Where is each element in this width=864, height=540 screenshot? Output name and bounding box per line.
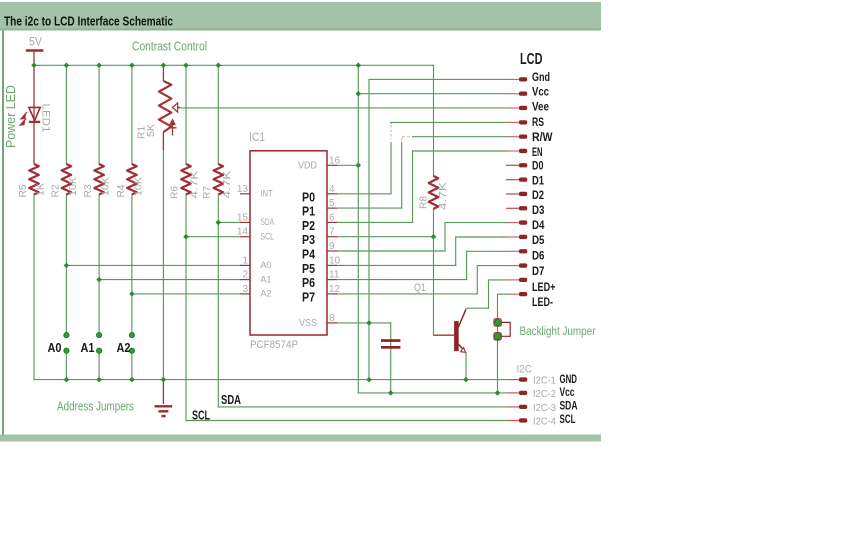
svg-text:Gnd: Gnd: [532, 71, 550, 84]
pin 6 P2 stub: [327, 221, 337, 223]
junction dot ground bus A0 column: [64, 377, 70, 383]
wire SCL pin14 to R6 column: [186, 236, 240, 238]
pin 9 P4 stub: [327, 250, 337, 252]
wire D5 riser: [455, 237, 457, 265]
wire LCD LED+ row: [489, 279, 508, 281]
svg-text:LED-: LED-: [532, 296, 553, 309]
svg-text:D2: D2: [532, 189, 544, 202]
svg-text:A1: A1: [81, 340, 95, 355]
LED D1 LED1: [20, 65, 40, 164]
I2C connector pin I2C-1 GND: [507, 377, 527, 381]
svg-text:I2C-3: I2C-3: [533, 402, 556, 414]
svg-text:I2C-2: I2C-2: [533, 388, 556, 400]
wire A1 pin2 to jumper column: [99, 279, 240, 281]
5V supply symbol: [26, 51, 44, 65]
wire P2 pin6 to EN riser: [337, 221, 413, 223]
wire R3 column top: [98, 65, 100, 164]
wire R5 LED column bottom to ground bus corner: [33, 195, 35, 380]
svg-text:SDA: SDA: [560, 400, 578, 413]
jumper A1 JP2: [97, 333, 102, 354]
svg-text:D4: D4: [532, 219, 545, 232]
wire R7 column top: [217, 65, 219, 164]
svg-text:P7: P7: [302, 291, 315, 305]
svg-text:P4: P4: [302, 248, 315, 262]
wire LCD Vcc row: [358, 93, 507, 95]
pin 14 SCL stub: [240, 236, 250, 238]
LCD connector pin D3: [506, 206, 527, 210]
wire EN riser: [412, 151, 414, 222]
wire LCD Gnd row: [369, 78, 507, 80]
wire P7 pin12 to D7 riser: [337, 293, 477, 295]
LCD connector pin LED+: [507, 278, 527, 282]
bottom green bar: [0, 435, 601, 442]
svg-text:P3: P3: [302, 233, 315, 247]
wire LCD LED- row to backlight jumper column: [498, 293, 508, 295]
svg-text:10K: 10K: [67, 177, 79, 196]
wire LCD R/W row: [402, 136, 507, 138]
wire LCD D6 row: [467, 250, 507, 252]
wire R4 column bottom to A2 and jumper: [131, 195, 133, 332]
wire R2 column top: [65, 65, 67, 164]
title bar: [0, 2, 601, 31]
wire LCD D7 row: [477, 265, 507, 267]
junction dot VCC column top bus: [356, 63, 362, 69]
svg-text:8: 8: [329, 313, 335, 324]
wire P0 pin4 to RS riser: [337, 193, 391, 195]
resistor R3 10K: [94, 164, 104, 195]
potentiometer R1 5K: [159, 65, 180, 150]
wire A0 pin1 to jumper column: [66, 264, 240, 266]
LCD connector pin Gnd: [507, 77, 527, 81]
wire P1 pin5 to RW riser: [337, 207, 402, 209]
backlight jumper JP4: [494, 319, 510, 340]
pin 16 VDD stub: [327, 164, 337, 166]
I2C connector pin I2C-3 SDA: [507, 405, 527, 409]
wire SCL bottom horizontal to I2C-4: [186, 420, 519, 422]
svg-text:LED1: LED1: [40, 104, 52, 133]
svg-text:A0: A0: [48, 340, 62, 355]
junction dot VCC column LCD Vcc row: [356, 91, 362, 97]
svg-text:P6: P6: [302, 276, 315, 290]
svg-text:R5: R5: [17, 184, 29, 197]
pin 4 P0 stub: [327, 193, 337, 195]
junction dot 5V top bus: [31, 63, 37, 69]
LCD connector pin D2: [506, 192, 527, 196]
svg-text:5K: 5K: [145, 124, 157, 137]
svg-text:4.7K: 4.7K: [189, 171, 201, 199]
svg-text:I2C: I2C: [517, 364, 533, 376]
wire LCD D5 row: [456, 236, 507, 238]
svg-text:SCL: SCL: [192, 408, 210, 423]
LCD connector pin D5: [507, 235, 527, 239]
svg-text:Vcc: Vcc: [532, 86, 549, 99]
svg-text:1: 1: [242, 255, 248, 266]
wire LCD D4 row: [445, 222, 507, 224]
wire RW riser: [401, 137, 403, 208]
wire pot column down to ground bus: [162, 142, 164, 380]
junction dot R1 top bus: [161, 63, 167, 69]
LCD connector pin D6: [507, 249, 527, 253]
wire A2 pin3 to jumper column: [132, 293, 240, 295]
wire GND column x369 from LCD Gnd row to ground bus: [368, 79, 370, 379]
svg-text:A1: A1: [261, 274, 272, 285]
LCD connector pin R/W: [507, 135, 527, 139]
svg-text:16: 16: [329, 155, 341, 166]
svg-text:Q1: Q1: [414, 282, 426, 294]
svg-text:14: 14: [237, 227, 249, 238]
wire LCD RS row: [391, 121, 507, 123]
wire R4 column top: [131, 65, 133, 164]
LCD connector pin RS: [507, 120, 527, 124]
junction dot ground bus pot column ground symbol: [161, 377, 167, 383]
wire VCC top bus: [34, 64, 434, 66]
wire R6 column bottom to SCL pin and bottom SCL line: [185, 195, 187, 421]
resistor R4 10K: [127, 164, 137, 195]
svg-text:SCL: SCL: [261, 232, 275, 243]
junction dot R4 top bus: [129, 63, 135, 69]
svg-text:15: 15: [237, 212, 249, 223]
wire ground bus horizontal: [34, 379, 519, 381]
svg-text:Backlight Jumper: Backlight Jumper: [520, 326, 596, 338]
LCD connector pin D7: [507, 263, 527, 267]
pin 10 P5 stub: [327, 264, 337, 266]
junction dot R2 top bus: [64, 63, 70, 69]
svg-text:7: 7: [329, 227, 335, 238]
resistor R8 4.7K: [429, 176, 439, 209]
wire SDA pin15 to R7 column: [218, 221, 240, 223]
svg-text:R8: R8: [418, 196, 430, 209]
svg-text:R/W: R/W: [532, 131, 553, 144]
svg-text:P2: P2: [302, 219, 315, 233]
wire D4 riser: [444, 223, 446, 251]
junction dot ground bus A2 column: [129, 377, 135, 383]
pin 13 INT stub: [240, 193, 250, 195]
svg-text:SCL: SCL: [560, 413, 576, 426]
wire D6 riser: [466, 251, 468, 279]
svg-text:P5: P5: [302, 262, 315, 276]
svg-text:A0: A0: [261, 260, 272, 271]
pin 1 A0 stub: [240, 264, 250, 266]
wire RS riser: [390, 122, 392, 193]
svg-text:I2C-4: I2C-4: [533, 416, 556, 428]
wire between backlight jumper pins: [497, 326, 499, 334]
junction dot SDA R7 column: [216, 220, 222, 226]
svg-text:R2: R2: [49, 184, 61, 197]
pin 7 P3 stub: [327, 236, 337, 238]
LCD connector pin D4: [507, 220, 527, 224]
junction dot ground bus GND column: [366, 377, 372, 383]
svg-text:10K: 10K: [100, 177, 112, 196]
svg-text:13: 13: [237, 184, 249, 195]
svg-text:D3: D3: [532, 204, 545, 217]
svg-text:12: 12: [329, 284, 341, 295]
pin 2 A1 stub: [240, 279, 250, 281]
svg-text:SDA: SDA: [261, 217, 275, 228]
wire LCD Vee row from potentiometer wiper: [180, 107, 507, 109]
svg-text:R4: R4: [115, 184, 127, 197]
wire Q1 collector jog: [466, 307, 489, 309]
svg-text:5V: 5V: [29, 37, 42, 49]
LCD connector pin LED-: [507, 292, 527, 296]
resistor R5 1K: [29, 164, 39, 195]
junction dot ground bus Q1 emitter: [463, 377, 469, 383]
svg-text:11: 11: [329, 270, 340, 281]
svg-text:R7: R7: [201, 186, 213, 199]
wire LCD EN row: [413, 150, 508, 152]
svg-text:D5: D5: [532, 234, 545, 247]
svg-text:VDD: VDD: [298, 160, 317, 172]
I2C connector pin I2C-2 Vcc: [507, 391, 527, 395]
svg-text:R6: R6: [169, 186, 181, 199]
ground symbol: [155, 380, 173, 417]
pin 8 VSS stub: [327, 322, 337, 324]
wire R6 column top: [185, 65, 187, 164]
svg-text:LED+: LED+: [532, 281, 556, 294]
svg-text:RS: RS: [532, 116, 544, 129]
junction dot I2C Vcc row backlight jumper: [495, 390, 501, 396]
junction dot VCC column VDD pin: [356, 163, 362, 169]
svg-text:4.7K: 4.7K: [221, 171, 233, 199]
wire VDD pin16 to VCC column: [337, 164, 358, 166]
junction dot VSS GND column: [366, 320, 372, 326]
wire P5 pin10 to D5 riser: [337, 264, 456, 266]
svg-text:6: 6: [329, 212, 335, 223]
junction dot ground bus A1 column: [96, 377, 102, 383]
wire capacitor lead through plates: [390, 323, 392, 393]
svg-text:5: 5: [329, 198, 335, 209]
jumper A0 JP1: [64, 333, 69, 354]
svg-text:Contrast Control: Contrast Control: [132, 39, 207, 54]
svg-text:SDA: SDA: [221, 392, 241, 407]
wire R3 column bottom to A1 and jumper: [98, 195, 100, 332]
LCD connector pin Vcc: [507, 92, 527, 96]
svg-text:D7: D7: [532, 265, 544, 278]
svg-text:10: 10: [329, 255, 341, 266]
wire R7 column bottom to SDA pin and bottom SDA line: [217, 195, 219, 407]
svg-text:3: 3: [242, 284, 248, 295]
svg-text:Address Jumpers: Address Jumpers: [57, 399, 134, 414]
svg-text:The i2c to LCD Interface Schem: The i2c to LCD Interface Schematic: [4, 15, 173, 29]
svg-text:LCD: LCD: [520, 51, 543, 68]
svg-text:1K: 1K: [35, 183, 47, 196]
junction dot R3 top bus: [96, 63, 102, 69]
junction dot R8 column P3: [431, 234, 437, 240]
junction dot A2 wire R4 column: [129, 291, 135, 297]
svg-text:A2: A2: [117, 340, 131, 355]
svg-text:Vcc: Vcc: [560, 386, 575, 399]
wire A2 jumper bottom to ground bus: [131, 354, 133, 380]
wire backlight jumper column top: [497, 294, 499, 319]
wire A1 jumper bottom to ground bus: [98, 354, 100, 380]
svg-text:P1: P1: [302, 205, 315, 219]
LCD connector pin EN: [507, 149, 527, 153]
wire R8 column bottom to Q1 base: [433, 209, 435, 335]
svg-text:IC1: IC1: [249, 132, 265, 144]
svg-text:EN: EN: [532, 146, 543, 159]
svg-text:D1: D1: [532, 174, 544, 187]
svg-text:R3: R3: [82, 184, 94, 197]
wire A0 jumper bottom to ground bus: [65, 354, 67, 380]
transistor Q1: [434, 309, 467, 352]
wire P4 pin9 to D4 riser: [337, 250, 445, 252]
svg-text:P0: P0: [302, 190, 315, 204]
wire VSS pin8 to GND column and capacitor: [337, 322, 391, 324]
junction dot A1 wire R3 column: [96, 277, 102, 283]
svg-text:10K: 10K: [132, 177, 144, 196]
pin 5 P1 stub: [327, 207, 337, 209]
svg-text:PCF8574P: PCF8574P: [250, 339, 298, 351]
junction dot A0 wire R2 column: [64, 263, 70, 269]
wire VCC column x358 from top bus to I2C Vcc row: [357, 65, 359, 393]
resistor R7 4.7K: [214, 164, 224, 195]
wire P6 pin11 to D6 riser: [337, 279, 467, 281]
junction dot I2C Vcc row capacitor: [388, 390, 394, 396]
svg-text:Vee: Vee: [532, 100, 549, 113]
pin 11 P6 stub: [327, 279, 337, 281]
svg-text:4: 4: [329, 184, 335, 195]
svg-text:2: 2: [242, 270, 248, 281]
wire P3 pin7 to R8 column: [337, 236, 434, 238]
LCD connector pin D1: [506, 178, 527, 182]
svg-text:4.7K: 4.7K: [437, 182, 449, 210]
wire D7 riser: [476, 266, 478, 294]
wire backlight jumper bottom to I2C Vcc row: [497, 339, 499, 393]
wire I2C Vcc row: [358, 392, 519, 394]
wire R8 column top from bus: [433, 65, 435, 176]
I2C connector pin I2C-4 SCL: [507, 418, 527, 422]
LCD connector pin D0: [506, 163, 527, 167]
wire SDA bottom horizontal to I2C-3: [218, 406, 519, 408]
svg-text:A2: A2: [261, 289, 272, 300]
resistor R6 4.7K: [181, 164, 191, 195]
wire R2 column bottom to A0 and jumper: [65, 195, 67, 332]
svg-text:INT: INT: [261, 189, 273, 200]
white-out artifact patch over RS/RW corner: [386, 124, 432, 142]
junction dot SCL R6 column: [183, 234, 189, 240]
junction dot R7 top bus: [216, 63, 222, 69]
svg-text:D6: D6: [532, 250, 545, 263]
pin 3 A2 stub: [240, 293, 250, 295]
svg-text:VSS: VSS: [299, 317, 317, 329]
svg-text:Power LED: Power LED: [4, 85, 18, 148]
resistor R2 10K: [62, 164, 72, 195]
pin 15 SDA stub: [240, 221, 250, 223]
pin 12 P7 stub: [327, 293, 337, 295]
svg-text:9: 9: [329, 241, 335, 252]
svg-text:D0: D0: [532, 160, 544, 173]
svg-text:I2C-1: I2C-1: [533, 375, 556, 387]
svg-text:GND: GND: [560, 373, 578, 386]
LCD connector pin Vee: [507, 106, 527, 110]
wire LED+ riser: [488, 280, 490, 308]
wire Q1 emitter to ground bus: [465, 353, 467, 380]
jumper A2 JP3: [129, 333, 134, 354]
frame left border: [2, 31, 4, 438]
capacitor C1: [381, 339, 400, 349]
junction dot R6 top bus: [183, 63, 189, 69]
op-amp U1 IC1 PCF8574P box: [250, 151, 327, 335]
